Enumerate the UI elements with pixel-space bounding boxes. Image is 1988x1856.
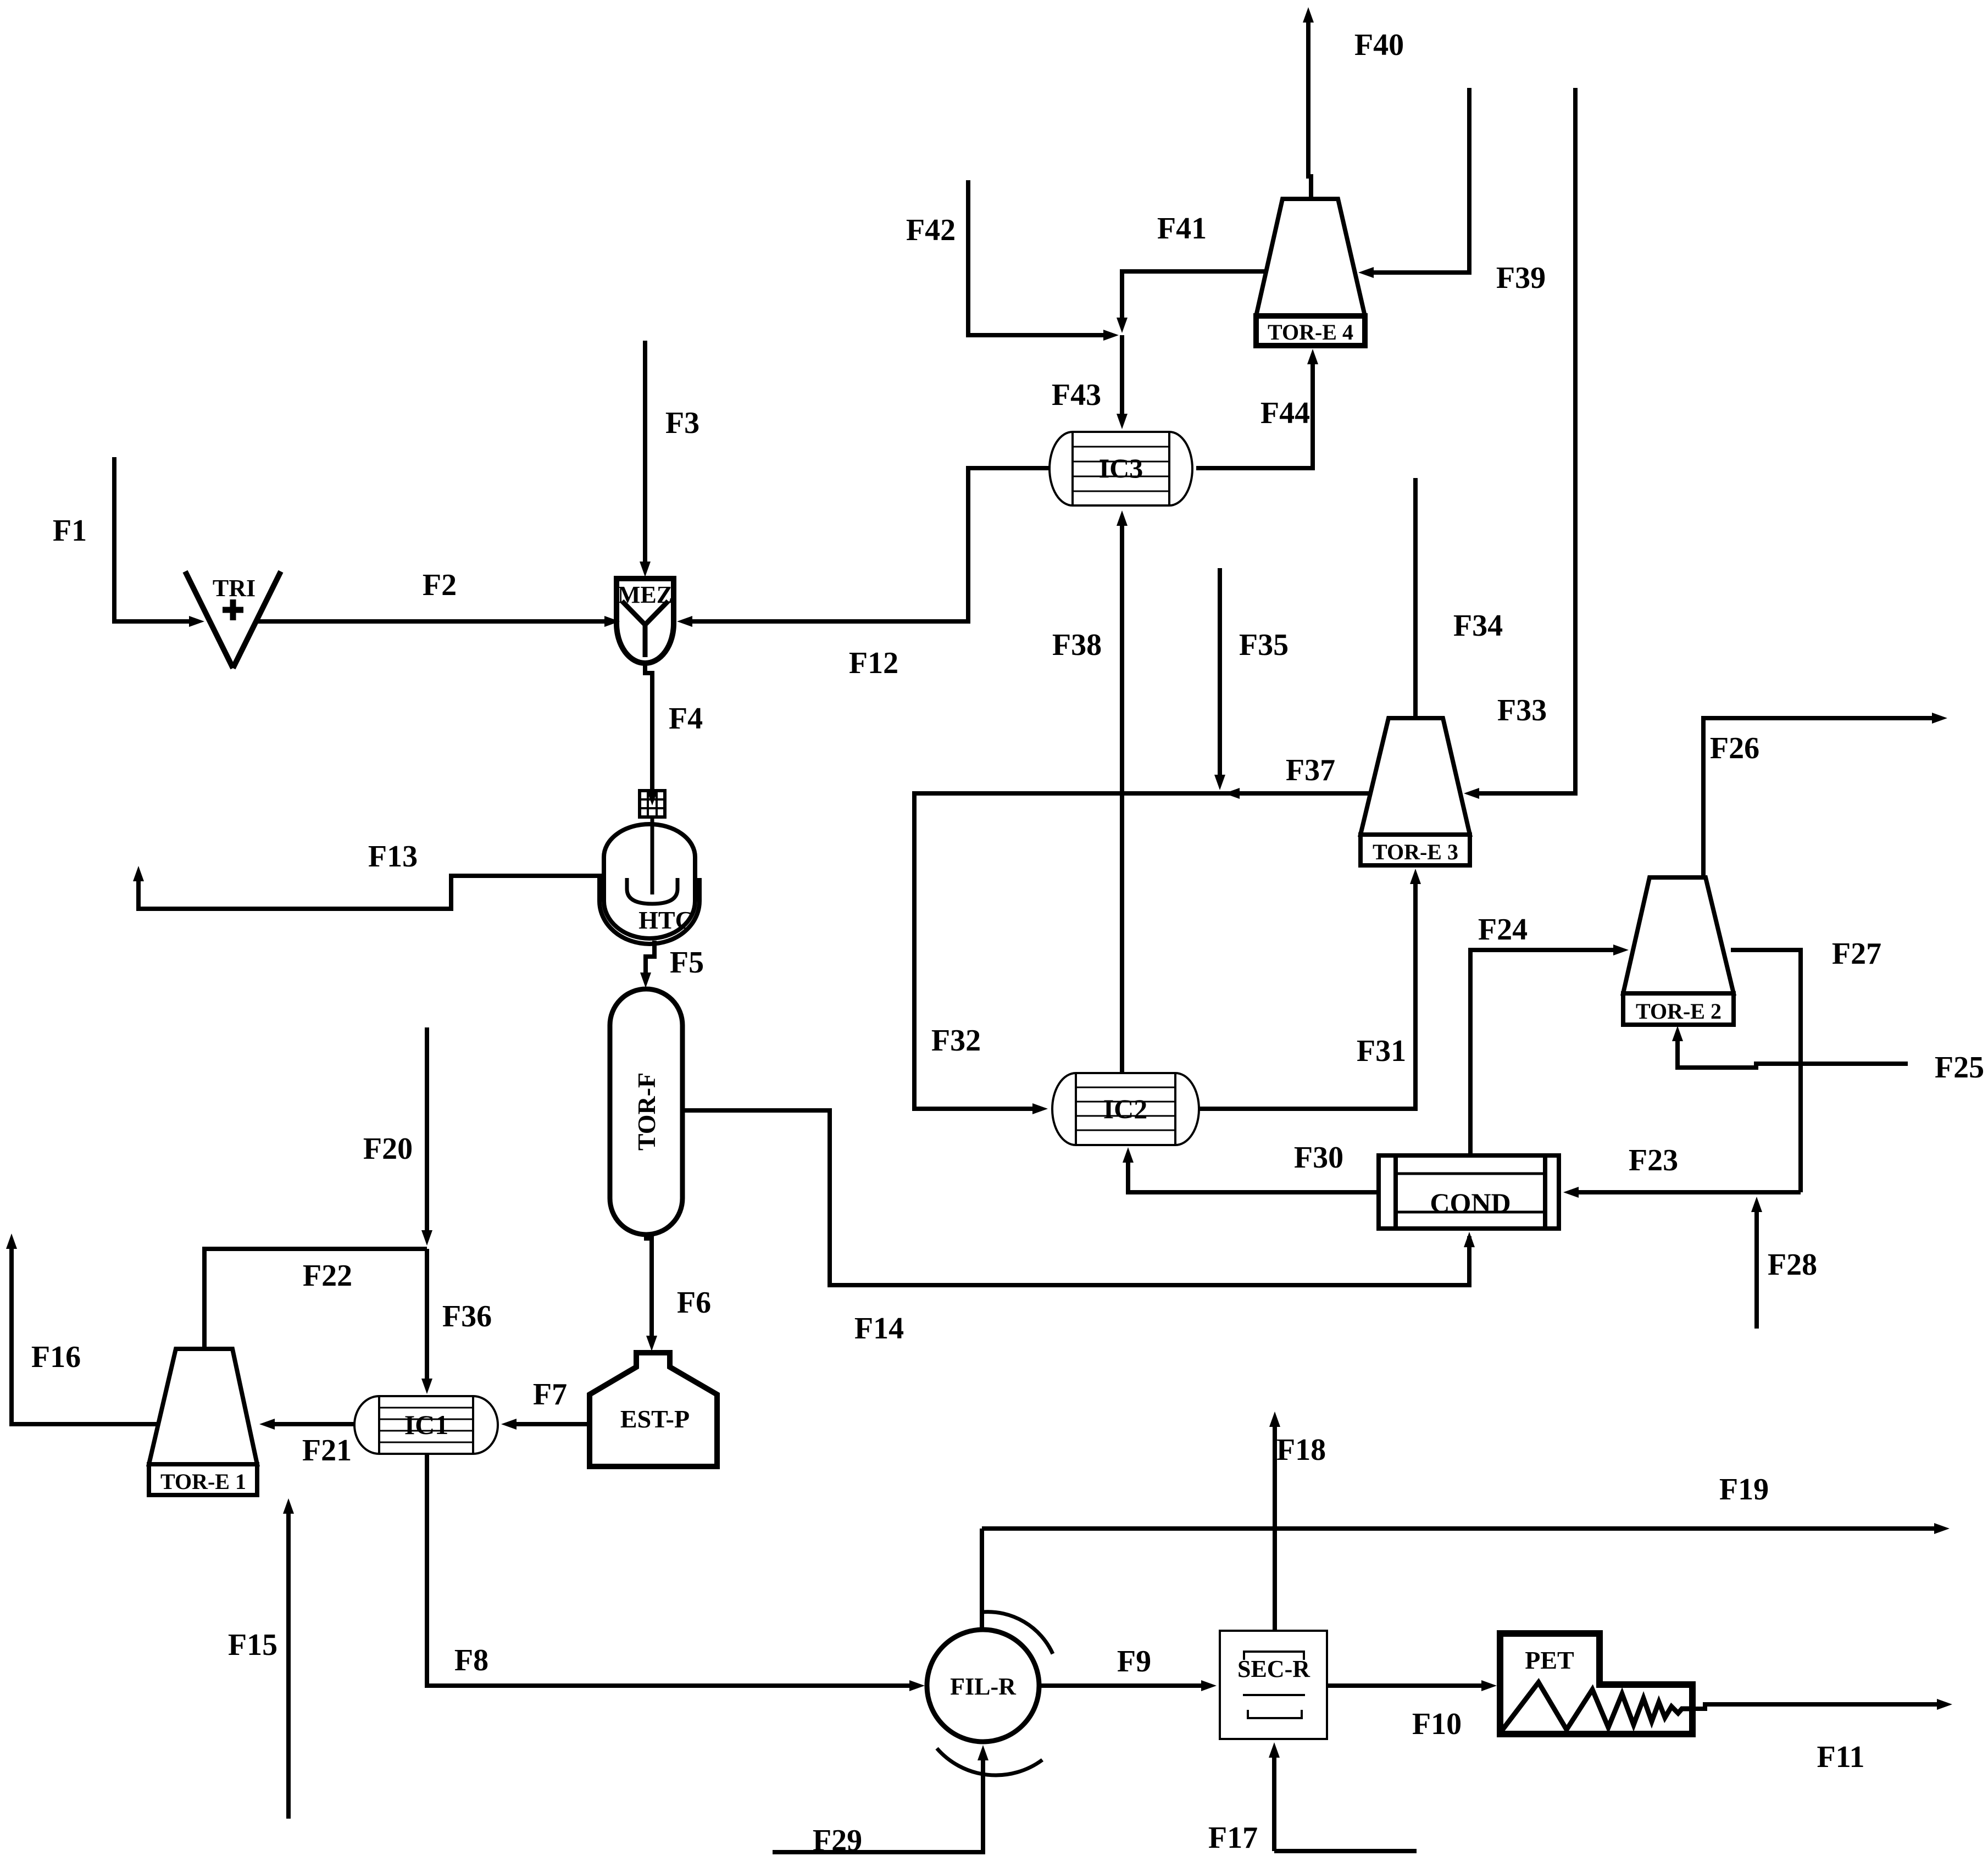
svg-text:F13: F13	[368, 840, 418, 874]
wire F25	[1672, 1026, 1984, 1085]
svg-text:IC2: IC2	[1103, 1093, 1148, 1124]
reactor HTC	[599, 791, 699, 944]
svg-text:SEC-R: SEC-R	[1237, 1655, 1310, 1682]
wire F5	[640, 941, 704, 988]
wire F37 with F32 drop	[914, 753, 1369, 1114]
svg-text:F11: F11	[1817, 1740, 1864, 1774]
svg-text:F35: F35	[1239, 628, 1289, 662]
svg-text:F44: F44	[1260, 396, 1310, 430]
svg-text:F5: F5	[670, 946, 704, 980]
svg-text:F22: F22	[303, 1259, 352, 1293]
svg-text:EST-P: EST-P	[620, 1405, 690, 1433]
svg-text:TOR-E 4: TOR-E 4	[1268, 320, 1353, 344]
svg-text:FIL-R: FIL-R	[950, 1673, 1017, 1700]
wire F23	[1563, 1143, 1801, 1198]
wire F7	[501, 1377, 590, 1430]
svg-text:F6: F6	[677, 1286, 711, 1320]
wire F4	[645, 662, 703, 805]
wire F15	[228, 1498, 294, 1819]
wire F16	[6, 1233, 158, 1424]
svg-text:PET: PET	[1525, 1646, 1574, 1674]
svg-text:TOR-E 1: TOR-E 1	[160, 1469, 246, 1494]
mixer MEZ	[617, 579, 674, 663]
svg-text:F15: F15	[228, 1628, 277, 1662]
wire F30	[1123, 1141, 1379, 1192]
svg-text:F43: F43	[1052, 378, 1101, 412]
column TOR-E 2	[1623, 877, 1734, 1025]
svg-text:F39: F39	[1496, 261, 1546, 295]
column TOR-E 4	[1256, 199, 1365, 346]
svg-text:F23: F23	[1629, 1143, 1678, 1177]
wire F40	[1303, 7, 1404, 199]
wire F33	[1464, 88, 1575, 799]
wire F27	[1731, 937, 1881, 1192]
wire F31	[1199, 869, 1421, 1109]
wire F10	[1327, 1680, 1497, 1741]
svg-text:F31: F31	[1357, 1034, 1406, 1068]
wire F34	[1415, 478, 1503, 718]
column TOR-E 3	[1360, 718, 1470, 865]
svg-text:IC1: IC1	[404, 1409, 449, 1440]
wire F24	[1470, 913, 1629, 1155]
wire F39	[1358, 88, 1546, 295]
wire F26	[1703, 713, 1947, 877]
wire F36	[421, 1249, 492, 1394]
svg-text:F7: F7	[533, 1377, 567, 1412]
exchanger IC3	[1049, 432, 1192, 505]
column TOR-F	[610, 989, 682, 1235]
svg-text:TOR-E 3: TOR-E 3	[1373, 840, 1458, 864]
wire FIL-R top riser	[980, 1529, 984, 1630]
svg-text:IC3: IC3	[1099, 453, 1143, 484]
wire F17	[1208, 1742, 1417, 1855]
svg-text:F18: F18	[1276, 1433, 1326, 1467]
wire F18	[1269, 1412, 1326, 1631]
wire F2	[257, 568, 620, 627]
svg-text:F42: F42	[906, 213, 956, 247]
svg-text:F37: F37	[1286, 753, 1335, 787]
wire F44	[1196, 349, 1318, 468]
svg-text:F10: F10	[1412, 1707, 1462, 1741]
svg-text:F16: F16	[31, 1340, 81, 1374]
vessel EST-P	[590, 1353, 717, 1466]
svg-text:F9: F9	[1117, 1644, 1151, 1679]
wire F12 into MEZ	[677, 468, 1049, 680]
svg-text:COND: COND	[1430, 1187, 1511, 1218]
svg-text:MEZ: MEZ	[618, 581, 673, 608]
column TOR-E 1	[149, 1349, 257, 1495]
wire F1	[53, 457, 204, 627]
wire F35	[1214, 568, 1289, 790]
filter FIL-R	[927, 1612, 1053, 1775]
svg-text:HTC: HTC	[638, 906, 693, 934]
wire F20	[363, 1027, 432, 1246]
svg-text:F1: F1	[53, 514, 87, 548]
svg-text:TRI: TRI	[213, 575, 256, 602]
svg-text:F38: F38	[1052, 628, 1102, 662]
wire F3	[640, 341, 699, 577]
wire F21	[259, 1419, 354, 1468]
wire F43 into IC3	[1052, 335, 1128, 429]
extruder PET	[1500, 1633, 1692, 1734]
svg-text:F4: F4	[669, 702, 703, 736]
wire F29	[773, 1745, 989, 1856]
svg-text:F14: F14	[854, 1312, 904, 1346]
exchanger IC1	[354, 1396, 498, 1454]
svg-text:F28: F28	[1768, 1248, 1817, 1282]
grinder TRI	[185, 571, 281, 668]
wire F6	[646, 1233, 711, 1351]
svg-text:F40: F40	[1354, 28, 1404, 62]
wire F9	[1039, 1644, 1217, 1691]
wire F28	[1751, 1197, 1817, 1329]
wire F42	[906, 180, 1119, 341]
svg-text:F19: F19	[1719, 1472, 1769, 1507]
svg-text:F8: F8	[454, 1643, 488, 1677]
svg-text:TOR-F: TOR-F	[632, 1073, 660, 1151]
svg-text:F36: F36	[442, 1299, 492, 1333]
wire F11	[1692, 1699, 1952, 1774]
svg-text:F29: F29	[813, 1824, 862, 1856]
svg-text:F20: F20	[363, 1132, 413, 1166]
svg-text:F30: F30	[1294, 1141, 1343, 1175]
svg-text:F25: F25	[1935, 1051, 1984, 1085]
svg-text:F17: F17	[1208, 1821, 1258, 1855]
wire F19	[982, 1472, 1950, 1534]
condenser COND	[1379, 1155, 1559, 1229]
svg-text:TOR-E 2: TOR-E 2	[1636, 999, 1722, 1024]
svg-text:F24: F24	[1478, 913, 1528, 947]
wire F14	[682, 1110, 1475, 1346]
wire F8	[427, 1454, 925, 1691]
svg-text:F12: F12	[849, 646, 898, 680]
wire F41 and F43 junction	[1117, 212, 1267, 333]
svg-text:F3: F3	[665, 406, 699, 440]
svg-text:F2: F2	[423, 568, 457, 602]
wire F22	[204, 1249, 427, 1349]
wire F13	[133, 840, 604, 909]
svg-text:F21: F21	[302, 1433, 352, 1468]
svg-text:F41: F41	[1157, 212, 1207, 246]
svg-text:F27: F27	[1832, 937, 1881, 971]
svg-text:F32: F32	[931, 1024, 981, 1058]
wire F38	[1052, 510, 1128, 1073]
reactor SEC-R	[1220, 1631, 1327, 1739]
svg-text:F26: F26	[1710, 731, 1759, 765]
svg-text:F33: F33	[1497, 693, 1547, 727]
svg-text:F34: F34	[1453, 609, 1503, 643]
exchanger IC2	[1052, 1073, 1199, 1145]
